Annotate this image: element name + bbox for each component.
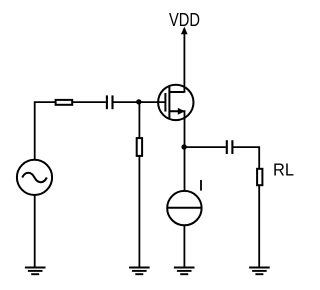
wire [258, 185, 260, 267]
wire [138, 156, 140, 268]
transistor arrow [178, 108, 185, 115]
wire [184, 146, 226, 148]
ground [249, 268, 270, 275]
power VDD [169, 10, 200, 92]
node [136, 99, 141, 104]
svg-text:RL: RL [273, 160, 294, 180]
wire [72, 101, 106, 103]
wire [138, 102, 140, 138]
ground [25, 268, 46, 275]
wire [233, 147, 259, 169]
svg-text:VDD: VDD [169, 10, 200, 30]
capacitor [227, 140, 233, 154]
ground [129, 268, 150, 275]
node [181, 144, 186, 149]
wire [184, 111, 186, 191]
voltage source V1 [17, 160, 52, 195]
wire [34, 195, 36, 268]
wire [35, 102, 56, 160]
current source I [167, 191, 201, 225]
resistor RL [257, 169, 262, 185]
capacitor [107, 95, 113, 109]
wire [114, 101, 166, 103]
resistor [137, 138, 142, 156]
label I [200, 180, 202, 191]
transistor M1 [158, 85, 193, 120]
wire [183, 225, 185, 267]
ground [174, 268, 195, 275]
resistor [56, 100, 73, 105]
